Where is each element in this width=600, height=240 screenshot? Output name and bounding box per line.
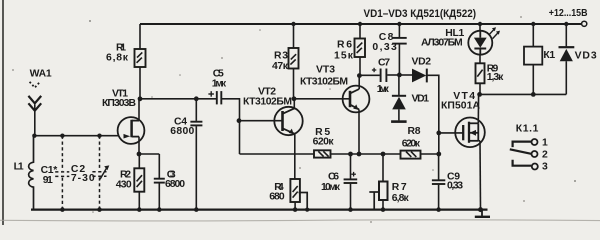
- svg-text:620к: 620к: [402, 139, 421, 150]
- wire drain node to C5: [140, 98, 216, 100]
- node C2 top: [97, 134, 101, 138]
- capacitor C9: [438, 154, 440, 180]
- capacitor C3: [158, 154, 160, 178]
- capacitor C7: [359, 74, 379, 76]
- node C1 top: [60, 134, 64, 138]
- LED emission arrows: [489, 27, 500, 38]
- wire feedback column to y154 rail: [240, 153, 315, 155]
- node K1 bottom: [531, 92, 536, 97]
- svg-text:L1: L1: [14, 162, 24, 173]
- svg-text:1: 1: [542, 137, 548, 148]
- svg-text:0,33: 0,33: [372, 42, 397, 53]
- resistor R5: [314, 150, 331, 157]
- svg-text:VD1: VD1: [412, 93, 430, 104]
- node R6 top: [358, 22, 362, 26]
- wire VT4 drain up: [477, 94, 479, 123]
- chassis mark near R7: [369, 191, 379, 193]
- svg-text:VD1–VD3 КД521(КД522): VD1–VD3 КД521(КД522): [364, 8, 477, 20]
- svg-text:1,3к: 1,3к: [487, 72, 504, 83]
- node R9/VT4 drain: [477, 92, 482, 97]
- resistor R6: [359, 24, 361, 39]
- node C8 top: [397, 22, 401, 26]
- svg-text:10мк: 10мк: [321, 182, 341, 193]
- svg-text:620к: 620к: [313, 137, 335, 148]
- transistor VT3 KT3102BM: [343, 86, 370, 113]
- resistor R2: [138, 154, 140, 168]
- ground symbol at bus end: [481, 210, 483, 216]
- transistor VT1 KP303V (JFET): [118, 117, 145, 144]
- resistor R1: [139, 24, 141, 49]
- wire y154 rail R5 to R8: [331, 153, 401, 155]
- inductor L1: [29, 136, 34, 210]
- diode VD1: [398, 75, 400, 95]
- svg-text:15к: 15к: [334, 51, 354, 62]
- svg-text:К1: К1: [543, 50, 555, 61]
- svg-text:680: 680: [269, 191, 285, 202]
- wire VT2 emitter down to R4: [294, 134, 296, 179]
- capacitor C5: [216, 91, 218, 104]
- relay K1 coil: [532, 24, 534, 47]
- svg-text:КП501А: КП501А: [441, 101, 480, 112]
- relay contacts K1.1: [510, 139, 538, 170]
- wire VT3 collector up: [358, 76, 360, 89]
- node antenna/L1 tee: [32, 134, 36, 138]
- svg-text:0,33: 0,33: [447, 181, 463, 192]
- capacitor C2 (dashed trimmer): [92, 136, 106, 210]
- svg-text:КТ3102БМ: КТ3102БМ: [243, 97, 292, 108]
- wire VT2 collector to VT3 base: [294, 98, 350, 100]
- svg-text:R3: R3: [274, 51, 288, 62]
- svg-text:1мк: 1мк: [212, 79, 227, 90]
- resistor R4: [290, 179, 300, 202]
- wire VT3 emitter down: [358, 109, 360, 154]
- resistor R9: [479, 55, 481, 64]
- node K1 top: [531, 22, 535, 26]
- wire VT1 drain up: [138, 99, 140, 121]
- svg-text:2: 2: [542, 149, 548, 160]
- capacitor C8: [398, 24, 400, 37]
- svg-text:WA1: WA1: [30, 69, 52, 80]
- LED HL1 AL307BM: [479, 24, 481, 31]
- node VT4 gate tee: [436, 131, 441, 136]
- node VT1 source: [137, 152, 142, 157]
- svg-text:91: 91: [43, 175, 53, 186]
- scan artifact bottom faint line: [0, 220, 600, 221]
- node VT2 base tee: [237, 118, 242, 123]
- wire antenna node to VT1 gate: [34, 135, 119, 137]
- wire R8 to C9 column: [421, 153, 439, 155]
- svg-text:К1.1: К1.1: [516, 123, 539, 134]
- svg-text:VD3: VD3: [575, 50, 597, 61]
- transistor VT4 KP501A (MOSFET): [455, 118, 485, 148]
- node R3/VT2 collector: [292, 96, 297, 101]
- wire top supply bus: [140, 23, 581, 25]
- svg-text:КТ3102БМ: КТ3102БМ: [300, 77, 348, 88]
- svg-text:VT3: VT3: [316, 65, 335, 76]
- svg-text:7-30: 7-30: [71, 173, 95, 184]
- wire VT1 source node to R2/C3: [139, 153, 159, 155]
- scan page left border: [2, 0, 4, 225]
- wire VT2 collector up: [293, 99, 295, 109]
- wire bottom common bus: [31, 209, 488, 211]
- C2 trimmer arrow: [100, 165, 109, 179]
- wire VT4 source down: [478, 140, 480, 142]
- capacitor C6: [350, 154, 352, 179]
- node dots on bottom bus: [60, 207, 483, 212]
- node R3 top: [291, 22, 295, 26]
- node VT3 emitter: [357, 152, 362, 157]
- wire VT4 gate: [439, 132, 463, 134]
- resistor R8: [401, 151, 421, 159]
- node R7 top: [381, 152, 386, 157]
- svg-text:6800: 6800: [165, 179, 185, 190]
- svg-text:47к: 47к: [272, 61, 289, 72]
- capacitor C4: [195, 99, 197, 121]
- node R8/C9/gate column: [436, 152, 441, 157]
- node C6 top: [348, 152, 353, 157]
- svg-text:+12...15В: +12...15В: [549, 8, 588, 19]
- svg-text:6800: 6800: [170, 126, 194, 137]
- node HL1 top: [478, 22, 482, 26]
- node C7/C8/VD1/VD2: [397, 73, 402, 78]
- diode VD3: [565, 24, 567, 46]
- svg-text:6,8к: 6,8к: [106, 53, 129, 64]
- wire drain node to relay/diode: [480, 93, 567, 95]
- wire VT1 source down: [138, 137, 140, 154]
- svg-text:С7: С7: [378, 57, 390, 68]
- node R1/VT1 drain: [138, 96, 143, 101]
- node C4 tap: [194, 96, 199, 101]
- capacitor C1 (dashed): [55, 136, 69, 210]
- wire C5 out, corner down to VT2 base column: [222, 99, 240, 154]
- node terminal +12...15V: [582, 21, 587, 26]
- svg-text:1мк: 1мк: [377, 84, 390, 95]
- resistor R3: [293, 24, 295, 48]
- svg-text:6,8к: 6,8к: [392, 193, 410, 204]
- wire VT2 base: [240, 120, 283, 122]
- svg-text:430: 430: [116, 180, 132, 191]
- chassis bar under VD1: [391, 120, 407, 123]
- svg-text:R8: R8: [408, 126, 421, 137]
- diode VD2: [399, 74, 412, 76]
- resistor R7: [382, 154, 384, 182]
- svg-text:АЛ307БМ: АЛ307БМ: [421, 37, 463, 48]
- transistor VT2 KT3102BM: [274, 107, 302, 135]
- node VD3 top: [564, 22, 568, 26]
- chassis mark near R4: [299, 192, 308, 194]
- svg-text:VD2: VD2: [412, 57, 432, 68]
- node R6/VT3 collector/C7: [357, 73, 362, 78]
- antenna WA1: [28, 82, 41, 136]
- svg-text:3: 3: [542, 162, 548, 173]
- svg-text:КП303В: КП303В: [102, 98, 136, 109]
